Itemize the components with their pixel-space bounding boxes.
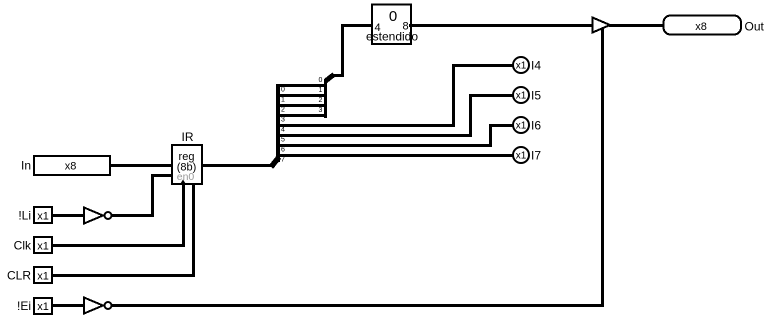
output pin I5 bbox=[513, 87, 529, 103]
svg-text:6: 6 bbox=[281, 147, 285, 154]
wire bit0 SP1 to SP2 bbox=[279, 84, 326, 87]
wire bit7 horizontal to I7 bbox=[279, 154, 513, 157]
svg-text:Out: Out bbox=[745, 20, 765, 34]
svg-text:I7: I7 bbox=[531, 149, 541, 163]
svg-text:x8: x8 bbox=[65, 161, 77, 173]
wire SP2 stub horizontal bbox=[332, 74, 343, 77]
svg-text:1: 1 bbox=[319, 87, 323, 94]
splitter SP1 stub diagonal bbox=[271, 157, 279, 167]
subcircuit U2 estendido bbox=[366, 5, 418, 45]
svg-text:!Li: !Li bbox=[18, 209, 31, 223]
svg-text:I5: I5 bbox=[531, 89, 541, 103]
svg-text:2: 2 bbox=[281, 107, 285, 114]
wire NOT1 output bbox=[112, 214, 154, 217]
wire NOT2 output to buffer enable bbox=[112, 304, 604, 307]
wire bit2 SP1 to SP2 bbox=[279, 104, 326, 107]
wire bit6 to I6 bbox=[489, 124, 513, 127]
svg-text:x1: x1 bbox=[37, 241, 49, 253]
register clock triangle marker bbox=[180, 180, 187, 186]
NOT gate G2 bbox=[84, 298, 112, 314]
svg-text:1: 1 bbox=[281, 97, 285, 104]
wire into estendido port 4 bbox=[341, 24, 374, 27]
output pin I7 bbox=[513, 147, 529, 163]
wire bit5 to I5 bbox=[469, 94, 513, 97]
svg-text:3: 3 bbox=[319, 107, 323, 114]
input pin CLR bbox=[34, 267, 52, 283]
svg-text:0: 0 bbox=[389, 8, 397, 25]
splitter SP1 bar bbox=[276, 84, 280, 162]
wire bit4 to I4 bbox=[452, 64, 513, 67]
NOT gate G1 bbox=[84, 208, 112, 224]
wire into IR en port bbox=[151, 174, 173, 177]
wire buffer enable vertical bbox=[601, 28, 604, 306]
wire !Ei to NOT2 bbox=[52, 304, 83, 307]
wire In to IR D input bbox=[110, 164, 173, 167]
svg-text:x1: x1 bbox=[516, 61, 527, 72]
wire bit4 horizontal bbox=[279, 124, 455, 127]
wire bit5 horizontal bbox=[279, 134, 472, 137]
svg-text:x1: x1 bbox=[37, 271, 49, 283]
register U1 reg (8b) bbox=[172, 145, 202, 184]
wire CLR riser to IR clear bbox=[192, 184, 195, 276]
wire buffer output to Out bbox=[609, 24, 666, 27]
wire Clk horizontal bbox=[52, 244, 185, 247]
wire bit6 riser bbox=[489, 124, 492, 146]
svg-text:7: 7 bbox=[281, 157, 285, 164]
wire estendido port 8 to buffer bbox=[409, 24, 593, 27]
svg-text:x8: x8 bbox=[695, 21, 707, 33]
svg-text:I6: I6 bbox=[531, 119, 541, 133]
svg-text:4: 4 bbox=[281, 127, 285, 134]
wire bit1 SP1 to SP2 bbox=[279, 94, 326, 97]
svg-text:!Ei: !Ei bbox=[17, 299, 31, 313]
svg-text:Clk: Clk bbox=[14, 239, 32, 253]
output pin I4 bbox=[513, 57, 529, 73]
input pin Clk bbox=[34, 237, 52, 253]
wire bit4 riser bbox=[452, 64, 455, 126]
svg-text:3: 3 bbox=[281, 117, 285, 124]
svg-text:0: 0 bbox=[281, 87, 285, 94]
svg-text:x1: x1 bbox=[516, 91, 527, 102]
splitter SP2 bar bbox=[324, 79, 327, 118]
input pin !Li bbox=[34, 207, 52, 223]
wire riser to estendido bbox=[341, 24, 344, 77]
svg-text:x1: x1 bbox=[516, 151, 527, 162]
splitter SP2 stub diagonal bbox=[326, 75, 335, 82]
output pin I6 bbox=[513, 117, 529, 133]
wire bit5 riser bbox=[469, 94, 472, 136]
svg-text:2: 2 bbox=[319, 97, 323, 104]
controlled buffer U3 bbox=[593, 18, 611, 33]
input pin In bbox=[34, 156, 110, 175]
svg-text:0: 0 bbox=[319, 77, 323, 84]
svg-text:x1: x1 bbox=[516, 121, 527, 132]
wire Clk riser to IR clock bbox=[182, 184, 185, 246]
wire NOT1 riser to IR en bbox=[151, 174, 154, 217]
svg-text:5: 5 bbox=[281, 137, 285, 144]
svg-text:estendido: estendido bbox=[366, 30, 418, 44]
wire IR Q output to splitter SP1 bbox=[202, 164, 275, 167]
wire !Li to NOT1 bbox=[52, 214, 83, 217]
svg-text:I4: I4 bbox=[531, 59, 541, 73]
output pin Out bbox=[664, 16, 742, 35]
input pin !Ei bbox=[34, 298, 52, 314]
svg-text:en0: en0 bbox=[177, 171, 195, 183]
wire CLR horizontal bbox=[52, 274, 195, 277]
svg-text:CLR: CLR bbox=[7, 269, 31, 283]
wire bit3 SP1 to SP2 bbox=[279, 114, 326, 117]
svg-text:x1: x1 bbox=[37, 301, 49, 313]
svg-text:x1: x1 bbox=[37, 211, 49, 223]
svg-text:IR: IR bbox=[182, 130, 194, 144]
wire bit6 horizontal bbox=[279, 144, 492, 147]
svg-text:In: In bbox=[21, 159, 31, 173]
